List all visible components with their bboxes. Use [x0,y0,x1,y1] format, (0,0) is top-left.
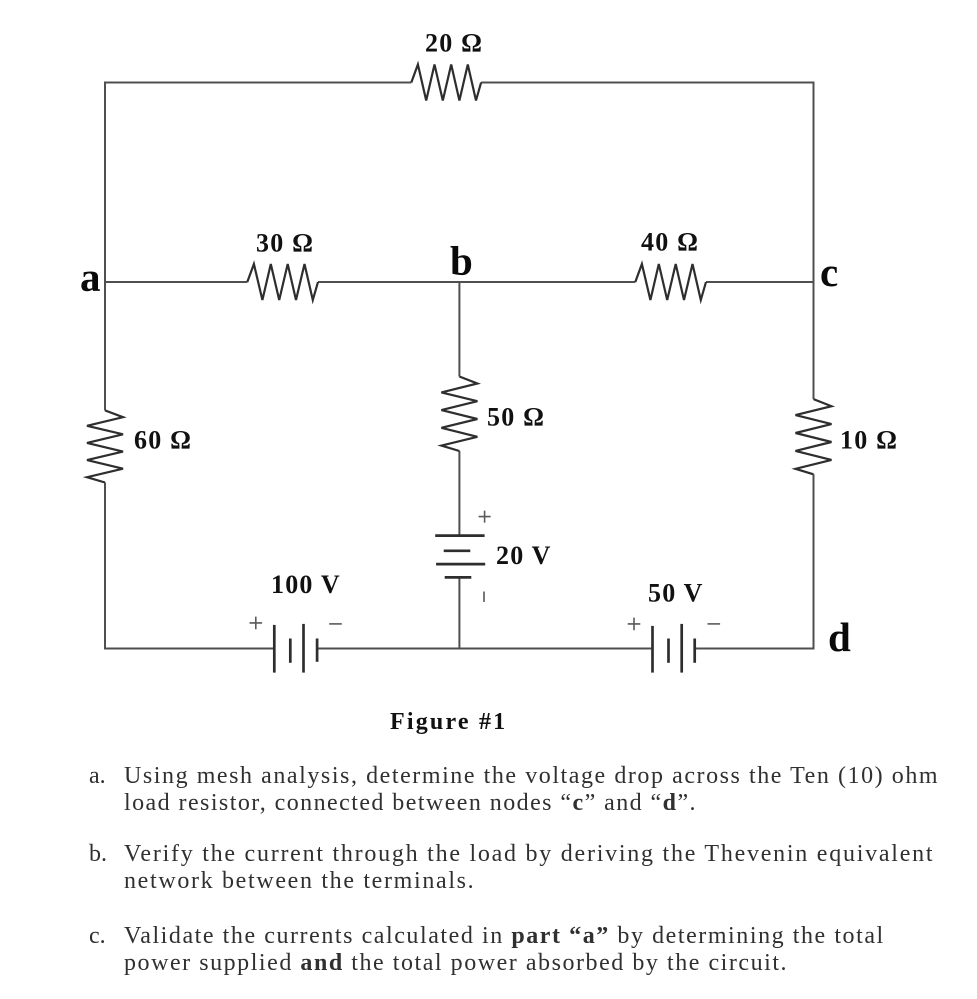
battery 50V plate tall left [651,626,654,673]
question a [89,763,939,817]
battery 100V plate short [289,639,292,663]
wire right upper [813,82,815,400]
wire top-right segment [481,82,813,84]
battery 20V plate short bottom [445,576,472,579]
svg-text:30 Ω: 30 Ω [256,229,314,258]
resistor 30ohm [247,264,318,300]
wire battery 20V to bottom [458,577,460,648]
wire left upper [104,82,106,411]
svg-text:d: d [828,614,851,660]
svg-text:20 V: 20 V [496,541,552,570]
resistor 10ohm [796,399,832,474]
svg-text:c: c [820,249,838,295]
battery 100V minus sign [329,623,342,625]
wire middle R40-c [706,281,814,283]
wire R50 to battery 20V [458,451,460,536]
wire middle a-R30 [105,281,247,283]
question b [89,841,934,895]
svg-text:50 Ω: 50 Ω [487,403,545,432]
wire b to R50 [458,282,460,377]
battery 20V plate long top [435,534,484,537]
wire bottom middle [317,648,652,650]
resistor 40ohm [635,264,706,300]
caption Figure #1 [390,709,507,736]
svg-text:a: a [80,254,101,300]
resistor 50ohm [441,377,477,452]
battery 100V plate tall left [273,625,276,673]
wire bottom left [105,648,274,650]
wire top-left segment [105,82,411,84]
wire left lower [104,483,106,650]
battery 20V plate long [436,563,485,566]
svg-text:10 Ω: 10 Ω [840,426,898,455]
resistor 60ohm [87,410,123,482]
battery 100V plus sign [250,617,263,630]
resistor 20ohm [411,65,481,101]
wire bottom right [695,648,814,650]
battery 50V plus sign [628,618,641,631]
svg-text:b: b [450,238,473,284]
battery 100V plate short right [316,639,319,662]
svg-text:20 Ω: 20 Ω [425,29,483,58]
svg-text:50 V: 50 V [648,579,704,608]
svg-text:40 Ω: 40 Ω [641,227,699,256]
battery 20V plus sign [479,511,491,523]
svg-text:100 V: 100 V [271,570,341,599]
battery 50V minus sign [708,623,721,625]
svg-text:60 Ω: 60 Ω [134,426,192,455]
battery 20V minus tick [483,592,485,603]
battery 50V plate short [667,639,670,663]
battery 50V plate short right [693,639,696,663]
wire right lower [813,474,815,649]
battery 100V plate tall [302,624,305,673]
battery 20V plate short [444,549,471,552]
battery 50V plate tall [680,624,683,673]
question c [89,923,885,977]
wire middle R30-b-R40 [318,281,635,283]
